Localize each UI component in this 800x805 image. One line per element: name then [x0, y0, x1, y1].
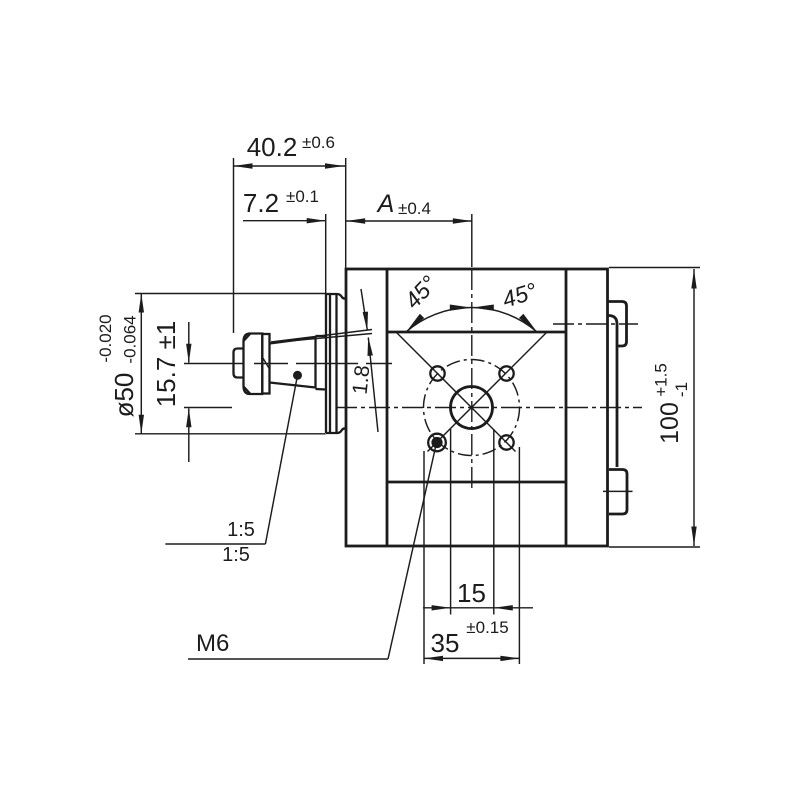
- svg-text:-1: -1: [672, 382, 691, 397]
- svg-text:40.2: 40.2: [247, 132, 298, 162]
- svg-text:-0.020: -0.020: [96, 314, 115, 362]
- svg-text:100: 100: [656, 402, 684, 444]
- svg-text:-0.064: -0.064: [121, 315, 140, 363]
- svg-text:1:5: 1:5: [222, 544, 250, 566]
- svg-text:M6: M6: [196, 630, 229, 657]
- svg-text:1:5: 1:5: [227, 519, 255, 541]
- svg-text:±0.15: ±0.15: [466, 618, 508, 637]
- svg-text:±0.4: ±0.4: [398, 199, 431, 218]
- svg-text:A: A: [376, 190, 395, 218]
- svg-text:+1.5: +1.5: [652, 363, 671, 397]
- svg-text:1.8: 1.8: [349, 364, 375, 395]
- svg-text:15.7 ±1: 15.7 ±1: [151, 321, 181, 408]
- svg-text:7.2: 7.2: [243, 188, 279, 218]
- svg-text:±0.6: ±0.6: [302, 133, 335, 152]
- svg-text:±0.1: ±0.1: [286, 187, 319, 206]
- svg-text:35: 35: [431, 628, 460, 658]
- svg-text:ø50: ø50: [109, 373, 139, 418]
- svg-text:15: 15: [457, 578, 486, 608]
